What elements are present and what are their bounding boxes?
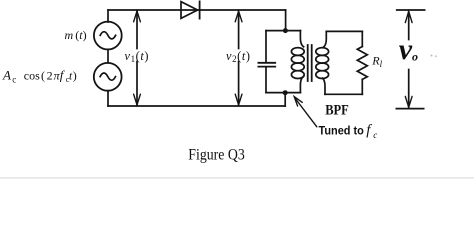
v2(t) measurement arrow [235,11,242,105]
svg-text:o: o [412,50,418,64]
vo output indicator bottom bar [396,108,423,110]
svg-text:v2(t): v2(t) [226,49,251,64]
node: tank top junction dot [283,28,288,33]
inductor L primary (transformer) [291,31,304,93]
source m(t) [94,22,122,50]
v1(t) measurement arrow [134,11,141,105]
capacitor C (tank) [258,31,275,93]
vo up arrow [405,11,412,39]
wire: secondary top rail [326,30,362,32]
resistor Rl [357,31,367,94]
vo down arrow [405,70,412,108]
wire: source column bottom segment [107,91,109,106]
svg-text:(t): (t) [75,28,86,42]
wire: drop from top rail to tank top node [285,10,287,31]
svg-text:Rl: Rl [371,54,382,69]
node: tank bottom junction dot [283,90,288,95]
svg-text:Figure Q3: Figure Q3 [188,147,245,164]
wire: secondary bottom rail [325,93,362,95]
source carrier Ac cos(2 pi fc t) [94,63,122,91]
wire: segment between the two sources [107,50,109,63]
wire: top rail from source to tank drop [108,9,286,11]
svg-text:c: c [373,130,377,140]
wire: tank top rail [266,30,300,32]
wire: riser from bottom rail to tank bottom node [284,93,286,106]
wire: source column top segment [107,10,109,22]
svg-text:m: m [65,28,74,42]
faint scan line at bottom [0,177,474,178]
wire: tank bottom rail [266,92,300,94]
svg-text:Tuned to: Tuned to [319,124,365,138]
diode D1 [181,1,200,18]
faint scan specks [431,55,433,57]
svg-text:BPF: BPF [325,103,349,119]
transformer core [308,45,312,81]
svg-text:v: v [399,33,413,66]
annotation arrow: tuned to fc pointer [294,97,317,127]
wire: bottom rail [108,105,285,107]
inductor secondary (transformer) [316,31,329,94]
svg-text:f: f [366,123,372,139]
svg-text:v1(t): v1(t) [125,49,150,64]
svg-text:Accos(2πfct): Accos(2πfct) [2,67,77,84]
vo output indicator top bar [397,9,425,11]
